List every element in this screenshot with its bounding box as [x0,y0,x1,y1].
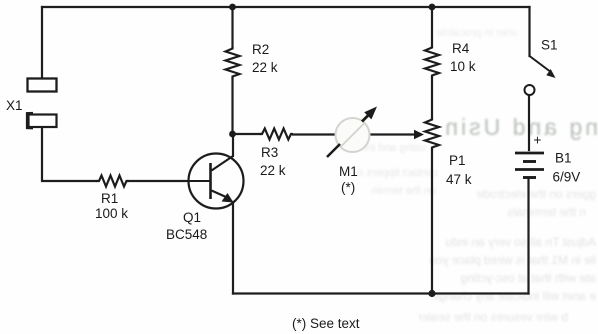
svg-text:Q1: Q1 [183,210,201,225]
svg-text:e anet will indicate any chang: e anet will indicate any change [432,289,596,303]
svg-text:(*): (*) [341,180,355,195]
svg-text:using and int: using and int [364,142,426,154]
svg-text:S1: S1 [541,38,558,53]
resistor R2 [226,47,240,79]
wire X1 bottom to R1 corner [42,126,96,181]
svg-text:R4: R4 [452,41,470,56]
wire M1 to P1 arrow [370,133,417,135]
svg-text:on the termin: on the termin [372,185,436,197]
svg-text:urier in procainte: urier in procainte [436,27,518,39]
svg-text:BC548: BC548 [166,227,207,242]
resistor R4 [425,46,439,78]
wire R4/P1 branch top [431,7,433,46]
resistor R1 [96,176,129,187]
resistor R3 [260,129,293,140]
wire battery minus to bottom rail [527,179,529,294]
svg-text:47 k: 47 k [446,172,472,187]
switch S1 blade [530,56,550,71]
crystal X1 top plate [28,79,57,92]
svg-text:ile in M1 that is wired place: ile in M1 that is wired place you [429,253,596,267]
wire P1 to bottom rail [431,150,433,294]
svg-text:ggers on the electrode: ggers on the electrode [476,187,596,201]
node junction dot top-left [229,4,236,11]
svg-text:contact tippers o: contact tippers o [357,167,438,179]
svg-text:22 k: 22 k [260,163,286,178]
svg-text:(*) See text: (*) See text [292,316,360,331]
bleed-through ghost text [357,27,598,324]
node junction dot at R2 bottom [229,131,236,138]
wire node to R3 [233,133,261,135]
svg-text:b wire vesures on the sealer: b wire vesures on the sealer [418,310,568,324]
svg-text:n the terminals: n the terminals [507,205,586,219]
wire R4 to P1 [431,78,433,118]
wire R2 top [231,7,233,47]
node junction dot bottom [428,290,435,297]
svg-text:R3: R3 [261,145,278,160]
node junction dot top-right [429,4,436,11]
wire left drop to X1 [41,7,43,79]
wire R3 to M1 [293,133,336,135]
svg-text:X1: X1 [6,98,23,113]
svg-text:B1: B1 [555,151,572,166]
battery B1 plates [515,153,544,178]
switch S1 terminal [525,85,535,95]
wire bottom rail [233,292,529,294]
crystal X1 bottom plate [27,113,57,129]
svg-text:P1: P1 [449,153,466,168]
meter M1 [327,107,377,158]
svg-text:22 k: 22 k [252,60,278,75]
svg-text:R1: R1 [101,191,118,206]
wire collector vertical [232,133,234,156]
wire switch terminal to battery [528,95,530,150]
svg-text:10 k: 10 k [450,59,476,74]
wiper arrowhead into P1 [414,130,424,139]
svg-text:R2: R2 [252,42,269,57]
svg-text:+: + [534,133,542,148]
wire top rail [42,6,530,8]
potentiometer P1 [425,118,439,150]
svg-text:100 k: 100 k [95,206,128,221]
svg-text:6/9V: 6/9V [553,170,581,185]
svg-text:Adjust Tn all so very an indu: Adjust Tn all so very an indu [445,235,596,249]
wire emitter vertical to bottom rail [232,202,234,294]
wire R1 to Q1 base [129,180,189,182]
wire switch drop [528,7,530,56]
svg-text:M1: M1 [339,164,358,179]
svg-text:ng and Usin: ng and Usin [442,114,598,140]
transistor Q1 [188,154,244,209]
wire R2 bottom to node [231,79,233,134]
